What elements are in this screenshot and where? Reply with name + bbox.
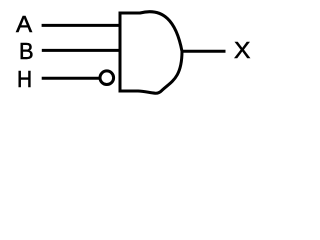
label A [16,13,32,36]
wire input H [42,77,100,80]
inversion bubble on H input [100,71,114,85]
wire output X [182,50,226,53]
label X [234,39,250,62]
wire input B [42,49,120,52]
wire input A [42,24,120,27]
label B [19,40,34,63]
label H [17,68,32,91]
AND gate body U1 [120,12,182,94]
